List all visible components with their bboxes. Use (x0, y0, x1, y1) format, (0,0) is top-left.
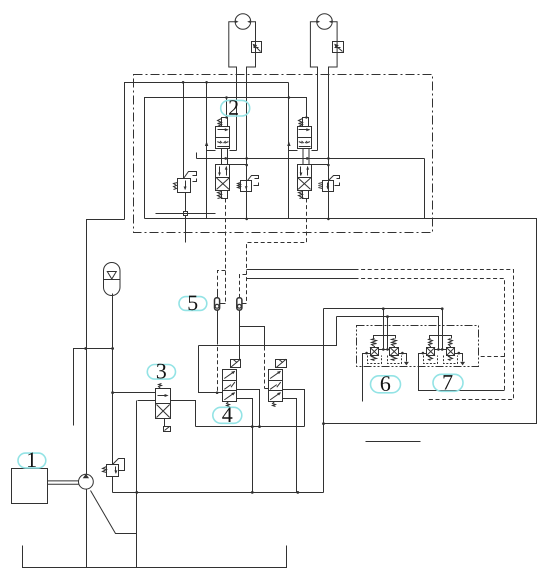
pilot valve 4a (223, 359, 241, 406)
group7 brake element left (427, 348, 435, 356)
V1 bottom cell marks (217, 142, 229, 147)
V3 bottom cell marks (299, 142, 311, 147)
counterbalance valve V1 body (216, 127, 230, 149)
wire: valve3 bypass y=400.4 left (138, 400, 156, 402)
solenoid valve 3 (156, 384, 171, 432)
accumulator (104, 263, 121, 296)
group6 drain triangle (404, 362, 409, 366)
wire: top pressure line y=82.3 (125, 83, 289, 220)
wire: brake line1 y=308.8 (324, 309, 443, 350)
wire: tank stub under brake box (366, 441, 421, 443)
wire: check1 output dashed lower (217, 341, 219, 393)
valve3 solenoid tail (164, 419, 171, 432)
V1 top cell arrow (218, 129, 228, 131)
relief valve RB (mid, in bank) (238, 176, 259, 192)
counterbalance valve V3 top stub (303, 118, 309, 127)
pump outlet triangle (83, 474, 89, 478)
wire: group6 left port (363, 354, 371, 402)
wire: bank right edge x=424.4 (424, 159, 426, 219)
V3 top cell arrow (299, 129, 310, 131)
wire: makeup jog into V1 (207, 150, 216, 152)
wire: valve3 bypass y=400.4 right (171, 401, 196, 427)
group6 bracket (374, 336, 396, 339)
wire: group7 right port (455, 354, 463, 362)
wire: V2 right port y=165 (230, 164, 247, 166)
wire: valve3 feed y=392.6 (113, 392, 156, 394)
wire: valve4b left port stub (265, 388, 269, 390)
group6 brake element right (390, 348, 399, 356)
wire: pilot line1 dashed tail (355, 270, 514, 400)
wire: pump case drain diagonal (91, 491, 137, 534)
wire: pressure tap stub x=73.4 (74, 349, 113, 426)
relief valve RC (right, in bank) (319, 176, 340, 192)
spring of V3 (299, 119, 303, 127)
wire: bank line left hook (196, 153, 198, 159)
V4 X cell (298, 178, 311, 189)
makeup arrow (287, 141, 290, 146)
wire: M1 pipe jog into V1 (230, 150, 237, 152)
wire: right loop drop x=323.5 (323, 309, 325, 493)
V2 bottom stub (222, 191, 228, 199)
wire: stub line y=213.4 (156, 213, 216, 215)
wire: cross line y=345.6 (199, 317, 337, 346)
wire: pump suction to tank (86, 490, 88, 568)
label ellipse 5 (179, 296, 207, 311)
valve3 X cell (157, 405, 170, 418)
label ellipse 7 (433, 374, 463, 391)
wire: bank mid line y=158.4 (197, 158, 425, 160)
counterbalance valve V3 body (298, 127, 312, 149)
wire: valve4b port A (283, 390, 305, 427)
valve4b spring bottom (273, 402, 276, 407)
pump P (79, 474, 94, 489)
wire: check1 jog (218, 271, 226, 298)
wire: pilot line2 solid y=278.4 (247, 278, 355, 280)
V4 bottom stub (303, 191, 309, 199)
V4 straight arrows (300, 167, 302, 176)
group6 spring left upper (372, 339, 377, 348)
wire: M1 right pipe (246, 67, 248, 219)
wire: M2 right pipe (328, 67, 330, 219)
wire: makeup line x=206.6 (206, 83, 208, 219)
group7 brake element right (447, 348, 455, 356)
wire: check1 connector (220, 303, 226, 305)
wire: makeup jog into V3 (289, 150, 298, 152)
group6 brake element left (371, 348, 379, 356)
makeup arrow (205, 141, 208, 146)
wire: check2 branch to valve4b (240, 327, 265, 347)
counterbalance valve V1 top stub (222, 118, 228, 127)
valve4a spring bottom (227, 402, 230, 407)
motor M1 circle (235, 14, 251, 30)
wire: brake line2 y=316.6 (337, 317, 439, 350)
wire: RA drain (185, 193, 187, 243)
brake group 7 (419, 336, 505, 391)
group6 spring right lower (392, 356, 397, 361)
wire: stack1 centreline dashed (225, 199, 227, 304)
tank line (23, 546, 287, 568)
dash-dot enclosure (travel unit) (134, 75, 433, 233)
valve4a pilot head (231, 360, 241, 368)
wire: accumulator / pilot supply x=112.6 (112, 294, 114, 465)
wire: stack1 inter-valve channel (222, 149, 228, 165)
wire: V4 right port y=165 (312, 164, 329, 166)
spring of V1 (218, 119, 222, 127)
wire: valve4a port A (237, 390, 260, 427)
wire: pilot line1 solid y=269.2 (247, 269, 355, 271)
label ellipse 4 (213, 407, 242, 423)
wire: valve4 feed riser x=198.4 (199, 346, 223, 393)
wire: M2 left pipe (317, 67, 319, 151)
motor M1 housing (229, 22, 256, 67)
check valve C2 (237, 298, 242, 310)
wire: check1 inlet stub (217, 292, 219, 298)
label ellipse 1 (18, 453, 46, 468)
wire: group6 pipe1 x=383.3 (383, 309, 385, 350)
pump relief valve (103, 459, 125, 477)
wire: stack2 centreline dashed (247, 199, 307, 304)
group6 spring left lower (372, 356, 377, 361)
wire: drain column x=136.8 (136, 401, 138, 568)
wire: V1 top feed (226, 98, 228, 118)
wire: stack2 inter-valve channel (303, 149, 309, 165)
motor M2 port arrows (317, 20, 332, 23)
wire: group7 left port (419, 354, 505, 391)
wire: check1 outlet solid (217, 311, 219, 341)
group7 drain triangle (460, 362, 465, 366)
wire: group6 pipe2 x=387.5 (387, 317, 389, 350)
label ellipse 2 (221, 100, 250, 116)
group7 spring right upper (449, 339, 453, 348)
wire: M1 left pipe (236, 67, 238, 151)
wire: group6 centre link (379, 349, 390, 351)
wire: group6 right port (399, 354, 407, 362)
wire: RA feed from top (183, 83, 185, 179)
wire: relief to return corner (112, 477, 114, 493)
wire: drain header y=426.6 (196, 426, 305, 428)
wire: group7 centre link (435, 349, 447, 351)
electric motor box 1 (12, 469, 48, 504)
group6 spring right upper (392, 339, 397, 348)
wire: pilot line2 branch to brake box (479, 356, 505, 358)
spring below V4 (299, 192, 303, 199)
wire: check2 connector (242, 303, 247, 305)
wire: inner top line y=97.5 (145, 98, 307, 219)
check valve C1 (215, 298, 220, 310)
wire: bank bottom gallery y=218.9 (145, 219, 537, 424)
directional valve V2 body (216, 165, 230, 191)
wire: check2 output to valve4b dashed (264, 347, 266, 389)
throttle valve on M2 (333, 42, 344, 53)
V2 straight arrows (219, 167, 221, 176)
throttle valve on M1 (252, 42, 262, 53)
wire: check2 outlet solid (239, 311, 241, 360)
motor M2 housing (310, 22, 337, 67)
node square (184, 212, 188, 216)
wire: outer left step y=219.4 (87, 220, 125, 475)
directional valve V4 body (298, 165, 312, 191)
spring below V2 (218, 192, 222, 199)
group7 dashed seats (424, 356, 458, 364)
wire: pilot line2 dashed tail (355, 279, 505, 391)
motor M1 port arrows (235, 20, 250, 23)
group7 bracket (430, 336, 452, 339)
group7 spring left upper (429, 339, 433, 348)
wire: check2 jog (240, 275, 247, 298)
wire: makeup line x=288.9 (288, 83, 290, 219)
group6 dashed seats (368, 356, 402, 364)
label ellipse 6 (371, 376, 401, 393)
group7 spring right lower (449, 356, 453, 361)
wire: valve4a port B (237, 399, 253, 493)
valve4b pilot head (276, 360, 287, 368)
motor M2 circle (317, 14, 333, 30)
valve3 top cell arrow (158, 395, 168, 397)
V2 X cell (217, 178, 230, 189)
wire: valve4b port B (283, 399, 297, 493)
brake group 6 (357, 326, 479, 402)
relief valve RA (left, in bank) (156, 83, 216, 243)
group7 spring left lower (429, 356, 433, 361)
dash-dot box around groups 6 and 7 (357, 326, 479, 367)
wire: return line y=492.4 (113, 492, 324, 494)
label ellipse 3 (147, 364, 175, 379)
valve3 spring top (159, 384, 162, 389)
wire: M2 pipe jog into V3 (312, 150, 318, 152)
pilot valve 4b (269, 359, 287, 406)
pilot dashed: stack1 centreline to check valve (218, 199, 514, 400)
wire: drive shaft (48, 481, 79, 484)
